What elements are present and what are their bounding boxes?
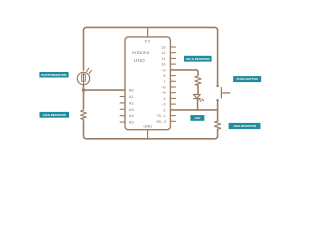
svg-text:A0: A0 <box>129 88 135 93</box>
label PHOTORESISTOR <box>39 72 68 78</box>
svg-text:~6: ~6 <box>161 85 165 90</box>
svg-text:PHOTORESISTOR: PHOTORESISTOR <box>41 73 67 77</box>
resistor 220 ohm <box>195 75 201 86</box>
wire right vertical button-to-resistor <box>217 101 219 121</box>
svg-text:11: 11 <box>162 56 166 61</box>
svg-text:A1: A1 <box>129 94 134 99</box>
svg-text:~5: ~5 <box>161 90 165 95</box>
LED D1 <box>193 95 200 99</box>
pin labels right <box>156 45 166 124</box>
wire 5V top rail <box>84 27 218 85</box>
svg-text:8: 8 <box>163 73 165 78</box>
wire 5V stub to arduino <box>147 27 149 37</box>
label 220 ohm resistor <box>184 56 212 62</box>
wire bottom GND rail <box>84 121 218 139</box>
svg-text:A4: A4 <box>129 113 135 118</box>
svg-text:PUSH BUTTON: PUSH BUTTON <box>237 77 258 81</box>
svg-text:TX→1: TX→1 <box>157 114 166 118</box>
resistor 10k left <box>81 109 87 122</box>
resistor 10k right <box>215 121 221 130</box>
wire GND stub from arduino <box>147 130 149 139</box>
svg-text:10kΩ RESISTOR: 10kΩ RESISTOR <box>233 124 257 128</box>
svg-text:2: 2 <box>163 107 165 112</box>
svg-text:Arduino: Arduino <box>132 50 150 55</box>
svg-text:5 V: 5 V <box>145 38 151 43</box>
photoresistor circle <box>77 72 89 84</box>
LED emission arrows <box>199 99 204 102</box>
svg-text:LED: LED <box>194 116 200 120</box>
Arduino Uno board U1 <box>125 37 170 130</box>
svg-text:12: 12 <box>161 50 165 55</box>
pin stubs left A0..A5 <box>120 97 125 123</box>
wire pin2 to push button bottom <box>170 109 217 111</box>
photoresistor light arrows <box>86 68 91 74</box>
svg-text:RX←0: RX←0 <box>156 120 165 124</box>
pin labels left <box>129 88 135 125</box>
wire 220 ohm resistor to LED <box>197 86 199 95</box>
label 10k resistor right <box>229 123 261 129</box>
svg-text:A2: A2 <box>129 100 134 105</box>
label 10k resistor left <box>40 112 70 118</box>
svg-text:7: 7 <box>163 79 165 84</box>
wire LED to pin2 net <box>197 99 199 110</box>
wire junction to A0 pin <box>84 89 126 91</box>
junction node A0 <box>82 88 85 91</box>
svg-text:A3: A3 <box>129 107 134 112</box>
svg-text:13: 13 <box>161 45 165 50</box>
label PUSH BUTTON <box>233 76 261 82</box>
svg-text:220 Ω RESISTOR: 220 Ω RESISTOR <box>186 57 211 61</box>
svg-text:UNO: UNO <box>134 58 145 63</box>
wire pin9 to 220 ohm resistor <box>170 70 198 75</box>
svg-text:~9: ~9 <box>161 67 165 72</box>
svg-text:10kΩ RESISTOR: 10kΩ RESISTOR <box>43 113 67 117</box>
svg-text:GND: GND <box>143 123 152 128</box>
label LED <box>190 115 204 121</box>
svg-text:A5: A5 <box>129 120 134 125</box>
pin stubs right 13..0 <box>170 47 176 121</box>
push button S1 <box>216 85 230 102</box>
wire photoresistor to junction A0 <box>83 85 85 109</box>
svg-text:~3: ~3 <box>161 102 165 107</box>
